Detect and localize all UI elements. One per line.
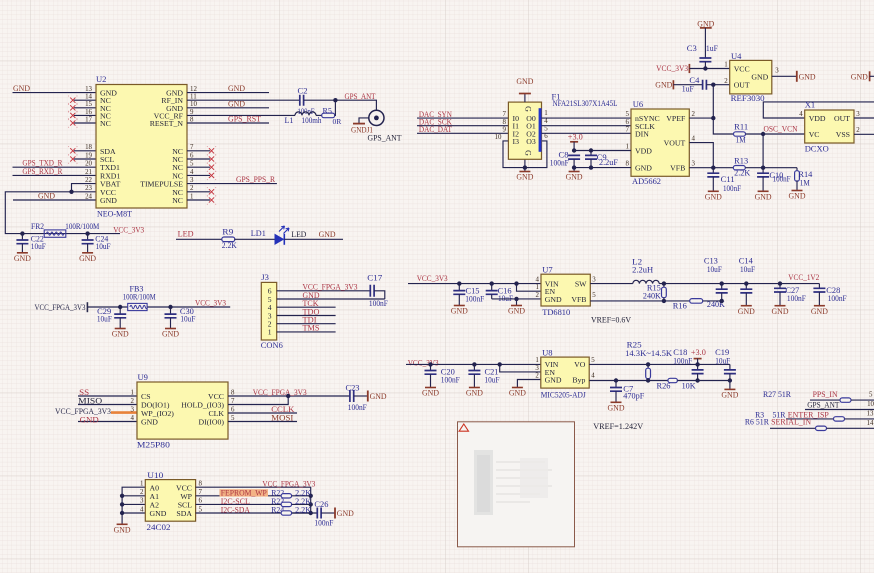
wire F1 pin1 to U6 [542,117,632,119]
svg-text:GND: GND [789,191,806,201]
svg-text:MOSI: MOSI [271,413,293,423]
svg-text:13: 13 [85,86,92,93]
junction F1 gnd [523,165,527,169]
resistor R15 240K [643,284,666,301]
svg-text:REF3030: REF3030 [731,93,765,103]
wire U2 pin 22 VBAT to VCC junction [72,184,97,192]
svg-text:+3.0: +3.0 [568,131,583,141]
wire U10 pin4 [122,512,145,514]
svg-text:GND: GND [13,83,30,93]
wire U2 pin 20 GPS_TXD_R [13,166,97,168]
junction C22 [20,231,24,235]
wire GPS_ANT to pin 10 [805,399,874,409]
svg-text:U9: U9 [138,372,148,382]
svg-text:2: 2 [724,78,728,85]
svg-text:GND: GND [100,196,117,205]
svg-text:TD6810: TD6810 [542,307,570,317]
svg-text:10uF: 10uF [97,315,112,324]
svg-text:VREF=1.242V: VREF=1.242V [593,421,644,431]
wire GND to C4 [673,84,702,86]
svg-text:RESET_N: RESET_N [150,119,184,128]
resistor R11 1M [734,123,749,145]
junction VBAT/VCC [69,190,73,194]
wire U10 SDA pin5 [196,512,318,514]
warning triangle marker [459,424,468,431]
capacitor C4 [682,76,707,94]
svg-text:U7: U7 [542,265,553,275]
eeprom U10 24C02 body [140,470,202,532]
wire VCC_FPGA_3V3 to VCC_3V3 through FB3 [87,306,127,308]
ground below C27 [775,305,786,307]
ground right of U4 [796,71,798,82]
resistor R13 2.2K [733,157,750,178]
wire U9 pin2 MISO [78,404,137,406]
svg-text:O3: O3 [526,137,536,146]
svg-text:3: 3 [535,365,539,372]
svg-text:7: 7 [190,144,194,151]
wire VCC_1V2 rail [659,283,819,285]
svg-text:GND: GND [851,71,868,81]
capacitor C18 [673,348,703,380]
resistor R6 51R SERIAL_IN row [745,416,874,430]
svg-text:GND: GND [721,390,738,400]
svg-text:OUT: OUT [834,114,850,123]
resistor R9 2.2K [222,228,237,251]
svg-text:4: 4 [536,276,540,283]
junction GPS antenna node [333,98,337,102]
capacitor C11 [707,168,741,193]
ground below C20 [425,387,436,389]
svg-text:1: 1 [268,328,272,337]
svg-text:2: 2 [190,185,194,192]
capacitor C16 [486,284,514,304]
svg-text:6: 6 [626,119,630,126]
svg-text:1: 1 [536,284,540,291]
svg-text:1: 1 [626,144,630,151]
svg-text:VCC_FPGA_3V3: VCC_FPGA_3V3 [253,387,307,397]
flash memory U9 M25P80 body [131,372,235,450]
svg-text:51R: 51R [756,416,769,426]
capacitor C8 [550,151,580,172]
regulator U8 MIC5205-ADJ body [535,347,595,399]
svg-text:VC: VC [809,130,820,139]
wire U2 NC pin 18 [74,150,96,152]
svg-text:GND: GND [79,253,96,263]
wire U2 pin10 GND [187,107,269,109]
svg-text:2.2uH: 2.2uH [632,265,653,274]
wire R13 to OSC_VCN filter node [745,167,797,169]
svg-text:U6: U6 [633,99,644,109]
junction OSC_VCN [761,132,765,136]
svg-text:2: 2 [692,111,696,118]
svg-text:3: 3 [190,177,194,184]
svg-text:12: 12 [190,86,197,93]
svg-text:2.2uF: 2.2uF [599,158,619,167]
svg-text:GND: GND [608,403,625,413]
svg-text:R11: R11 [734,123,748,132]
junction VPEF [711,116,715,120]
junction C7 top [614,378,618,382]
svg-text:GND: GND [14,253,31,263]
junction C16 [490,281,494,285]
svg-text:NC: NC [100,119,111,128]
junction pullup rail SCL [309,502,313,506]
filter F1 NFA21SL307X1A45L body [495,92,618,160]
svg-text:GND: GND [141,418,158,427]
resistor R25 [625,341,672,381]
wire VCC_3V3 rail to U7 VIN [408,283,541,285]
svg-text:2: 2 [536,292,540,299]
wire U7 GND stub down [516,299,518,305]
svg-text:M25P80: M25P80 [137,440,170,450]
wire C23 to GND port [354,395,368,397]
svg-text:VCC_3V3: VCC_3V3 [656,63,688,73]
capacitor C7 [610,381,645,402]
wire U8 Byp row [589,380,668,382]
ground below F1 [519,171,530,173]
wire DAC_SCK to F1 pin8 [417,125,508,127]
wire U2 NC pin 2 [187,191,210,193]
svg-text:9: 9 [190,109,194,116]
svg-text:GND: GND [738,306,755,316]
svg-text:SDA: SDA [176,509,192,518]
svg-text:100nF: 100nF [673,356,692,365]
oscillator X1 DCXO body [799,100,860,154]
wire C8 C9 to U6 GND pin8 [574,167,631,169]
svg-text:3: 3 [131,406,135,413]
svg-text:VCC_3V3: VCC_3V3 [408,358,439,368]
svg-text:100nF: 100nF [314,518,333,527]
junction EN tap [514,281,518,285]
wire U2 NC pin 15 [74,107,96,109]
svg-text:GPS_RST: GPS_RST [228,113,262,123]
svg-text:10uF: 10uF [96,242,111,251]
svg-text:8: 8 [503,119,507,126]
wire J3 pin6 VCC_FPGA_3V3 to C17 [277,290,371,292]
svg-text:100R/100M: 100R/100M [65,222,99,231]
wire C26 to GND port [321,512,335,514]
inductor L1 [285,112,322,125]
wire DAC_SYN to F1 pin7 [417,117,508,119]
svg-text:VO: VO [574,360,586,369]
wire OSC_VCN vertical [762,134,764,168]
resistor R14 1M [795,168,813,191]
power port VCC_3V3 [656,63,689,73]
svg-text:TMS: TMS [303,323,320,333]
svg-text:VCC_3V3: VCC_3V3 [195,297,226,307]
svg-text:2: 2 [131,398,135,405]
wire +3.0 to U6 VDD [574,150,631,152]
svg-text:CON6: CON6 [261,340,284,350]
wire U9 HOLD pin7 tie up [228,396,288,405]
wire U2 pin8 GPS_RST [187,122,269,124]
svg-text:100nF: 100nF [550,159,569,168]
regulator U7 TD6810 body [536,265,597,317]
capacitor C29 [97,307,126,328]
wire VCC_3V3 to U8 VIN [406,363,541,365]
svg-text:GND: GND [799,72,816,82]
svg-text:GND: GND [337,508,354,518]
svg-text:100nF: 100nF [369,299,388,308]
wire R11 to OSC_VCN [746,133,805,135]
svg-text:GND: GND [751,72,768,81]
svg-text:DAC_DAT: DAC_DAT [419,124,453,134]
svg-text:100R/100M: 100R/100M [123,293,156,302]
svg-text:GND: GND [466,388,483,398]
wire U2 pin12 GND [187,92,269,94]
svg-text:GND: GND [705,192,722,202]
wire U8 GND pin [517,380,540,388]
svg-text:1M: 1M [800,179,810,188]
svg-text:4: 4 [131,415,135,422]
svg-text:6: 6 [199,498,203,505]
svg-text:GND: GND [811,306,828,316]
ground below U8 GND [512,387,523,389]
svg-text:VCC: VCC [734,64,750,73]
svg-text:GND: GND [150,509,167,518]
svg-text:17: 17 [85,116,92,123]
svg-text:14: 14 [85,94,92,101]
svg-text:6: 6 [231,406,235,413]
wire U10 left rail to GND [122,487,145,524]
svg-text:R16: R16 [673,302,687,311]
wire U10 pin2 [122,495,145,497]
svg-text:10uF: 10uF [180,315,195,324]
junction VFB [711,166,715,170]
wire U10 pin3 [122,503,145,505]
svg-text:VDD: VDD [635,147,652,156]
svg-text:7: 7 [503,111,507,118]
svg-text:C23: C23 [346,383,360,393]
svg-text:GND: GND [772,306,789,316]
ground below C7 [611,401,622,403]
svg-text:14: 14 [867,420,874,427]
wire U9 pin4 GND [78,421,137,423]
svg-text:GND: GND [451,306,468,316]
svg-text:1uF: 1uF [706,44,718,53]
junction C18 top [695,362,699,366]
svg-text:100nF: 100nF [773,174,791,183]
wire U2 pin 21 GPS_RXD_R [13,174,97,176]
wire U9 pin1 SS [78,395,137,397]
capacitor C19 [715,348,736,389]
connector J3 CON6 body [261,272,284,350]
svg-text:6: 6 [544,133,548,140]
svg-text:LED: LED [178,228,194,238]
ground below C29 [115,328,126,330]
wire J3 pin4 TCK [277,306,336,308]
svg-text:10uF: 10uF [715,356,730,365]
wire U2 NC pin 5 [187,166,210,168]
svg-text:VOUT: VOUT [664,139,686,148]
svg-text:100nF: 100nF [441,375,460,384]
svg-text:24C02: 24C02 [147,522,171,532]
svg-text:10uF: 10uF [31,242,46,251]
svg-text:R5: R5 [323,106,332,115]
component U2 NEO-M8T body [85,74,197,219]
svg-text:DIN: DIN [635,129,649,138]
svg-text:G: G [524,150,533,156]
svg-text:GNDJ1: GNDJ1 [351,125,373,135]
svg-text:I3: I3 [513,137,520,146]
svg-text:R27 51R: R27 51R [763,389,791,399]
svg-text:1: 1 [190,193,194,200]
ground below C30 [165,328,176,330]
wire VCC_3V3 to U4 VCC [689,68,729,70]
ferrite bead FR2 [31,222,99,237]
junction C13 [720,281,724,285]
svg-text:15: 15 [85,101,92,108]
junction C15 [457,281,461,285]
wire U2 NC pin 4 [187,174,210,176]
svg-text:GPS_ANT: GPS_ANT [807,399,840,409]
capacitor C3 [687,44,719,69]
ground right of C26 [334,508,336,519]
svg-text:PPS_IN: PPS_IN [813,389,838,399]
junction C21 [472,362,476,366]
svg-text:4: 4 [140,506,144,513]
wire U2 pin3 TIMEPULSE GPS_PPS_R [187,183,277,185]
svg-text:8: 8 [626,161,630,168]
svg-text:VCC_1V2: VCC_1V2 [788,272,819,282]
wire U8 VO rail [589,363,730,365]
wire U7 VFB row [590,300,691,302]
junction U10 pin4 rail [120,511,124,515]
junction C24 [85,231,89,235]
wire U6 VFB row [689,167,735,169]
wire U9 pin3 orange highlight [111,411,137,414]
wire U9 DI pin5 [228,421,297,423]
svg-text:3: 3 [692,161,696,168]
capacitor C24 [82,234,111,253]
svg-text:8: 8 [199,481,203,488]
svg-text:VREF=0.6V: VREF=0.6V [591,314,632,324]
svg-text:100nF: 100nF [465,294,484,303]
wire U7 GND pin [492,298,541,300]
wire J3 pin5 GND [277,298,385,300]
svg-text:8: 8 [190,116,194,123]
wire R26 to C18 bottom [677,380,730,382]
svg-text:5: 5 [869,391,873,398]
svg-text:LD1: LD1 [251,228,266,238]
vreg U4 REF3030 body [724,51,779,103]
wire U2 pin11 RF_IN to C2 [187,99,300,101]
wire U2 NC pin 14 [74,99,96,101]
power port GND left of C4 [655,80,673,90]
ground below C19 [724,388,735,390]
junction U4 OUT to DAC ref [711,83,715,87]
junction C27 [778,281,782,285]
svg-text:MISO: MISO [78,396,102,406]
svg-text:2: 2 [140,489,144,496]
ground below U7 GND [511,305,522,307]
wire U2 NC pin 19 [74,158,96,160]
wire F1 pin10 wrap to gnd [503,141,525,168]
svg-text:U10: U10 [147,470,163,480]
inductor L2 2.2uH [632,258,659,284]
capacitor C17 [367,272,388,308]
svg-text:I2C-SDA: I2C-SDA [221,504,251,514]
svg-text:10uF: 10uF [707,265,722,274]
svg-text:C17: C17 [367,272,383,282]
svg-text:2: 2 [856,127,860,134]
wire X1 OUT to edge [854,117,874,119]
wire LED to R9 [176,238,222,240]
svg-text:22: 22 [85,177,92,184]
svg-text:GND: GND [38,190,55,200]
svg-text:5: 5 [592,292,596,299]
wire X1 VSS to edge [854,133,874,135]
svg-text:14.3K~14.5K: 14.3K~14.5K [625,349,672,358]
ground below U10 rail [117,523,128,525]
wire F1 pin4 to U6 [542,125,632,127]
svg-text:GND: GND [370,391,387,401]
svg-text:100nF: 100nF [828,294,847,303]
svg-text:R13: R13 [734,157,748,166]
svg-text:19: 19 [85,152,92,159]
wire U10 SCL pin6 [196,503,282,505]
wire U2 NC pin 1 [187,199,210,201]
svg-text:C2: C2 [298,85,308,95]
svg-text:1: 1 [724,62,728,69]
resistor R22 2.2K [271,488,311,498]
svg-text:C3: C3 [687,44,697,53]
svg-text:U4: U4 [731,51,742,61]
svg-text:R6: R6 [745,416,755,426]
svg-text:2.2K: 2.2K [734,169,750,178]
svg-text:SW: SW [575,279,587,288]
ground below C21 [469,387,480,389]
svg-text:LED: LED [291,229,306,239]
svg-text:4: 4 [799,111,803,118]
svg-text:1M: 1M [736,135,746,144]
wire R5 to antenna junction [334,100,337,115]
svg-text:5: 5 [626,111,630,118]
svg-text:VFB: VFB [571,295,586,304]
svg-text:GND: GND [228,99,245,109]
wire antenna to GNDJ1 [359,118,369,123]
wire U2 NC pin 6 [187,158,210,160]
svg-text:10uF: 10uF [740,265,755,274]
svg-text:VPEF: VPEF [666,114,686,123]
svg-text:2.2K: 2.2K [295,505,311,514]
wire L1 to R5 [316,114,323,116]
svg-text:VCC_FPGA_3V3: VCC_FPGA_3V3 [35,302,86,312]
svg-text:NEO-M8T: NEO-M8T [97,209,133,219]
svg-text:AD5662: AD5662 [632,176,661,186]
junction R15 bottom [662,299,666,303]
junction C30 [168,305,172,309]
svg-text:U2: U2 [96,74,106,84]
ground below C24 [82,252,93,254]
junction U7 GND [514,297,518,301]
junction pullup rail SDA [309,511,313,515]
svg-text:10K: 10K [682,381,696,390]
ferrite bead FR3 [123,284,156,310]
wire C17 to GND row [374,291,385,299]
wire X1 VDD wrap to right edge [763,102,874,118]
ground far right top [851,71,874,81]
svg-text:GND: GND [545,376,562,385]
svg-text:3: 3 [592,276,596,283]
ground below C15 [454,305,465,307]
svg-text:100nF: 100nF [787,294,806,303]
junction R15 [662,281,666,285]
svg-text:GND: GND [509,388,526,398]
svg-text:GPS_ANT: GPS_ANT [345,91,377,101]
svg-text:+3.0: +3.0 [691,347,706,357]
capacitor C15 [453,284,484,305]
